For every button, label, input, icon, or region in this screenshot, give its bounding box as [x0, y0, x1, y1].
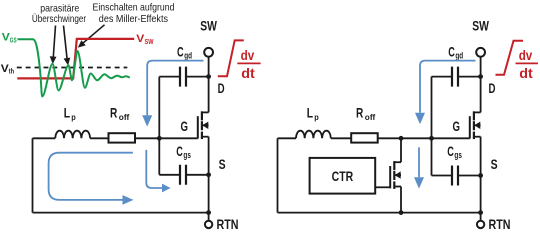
label C_gs	[176, 143, 191, 160]
wire: drain vertical from SW	[208, 57, 210, 113]
V_GS green gate voltage trace with ringing	[18, 39, 130, 96]
SW terminal circle	[204, 48, 213, 57]
CTR controller box	[310, 158, 376, 194]
svg-text:S: S	[219, 156, 226, 172]
label L_p	[64, 105, 76, 122]
wire: R_off to gate (right)	[378, 137, 470, 139]
svg-text:SW: SW	[200, 18, 217, 33]
blue current loop arrow (L_p/R_off loop)	[49, 153, 134, 205]
wire: left loop vertical	[32, 138, 34, 212]
svg-text:Einschalten aufgrund: Einschalten aufgrund	[93, 3, 175, 14]
svg-text:D: D	[218, 80, 225, 96]
wire: bottom return	[33, 212, 209, 214]
svg-text:p: p	[71, 113, 76, 122]
RTN terminal circle (right)	[477, 221, 484, 228]
resistor R_off	[109, 133, 136, 142]
label V_GS (green)	[2, 32, 17, 45]
inductor L_p	[55, 131, 90, 139]
svg-text:off: off	[365, 113, 376, 122]
svg-text:G: G	[181, 118, 189, 134]
svg-text:R: R	[110, 105, 117, 121]
wire: CTR to clamp gate	[375, 186, 390, 188]
svg-text:parasitäre: parasitäre	[40, 3, 79, 14]
wire: drain vertical (right)	[480, 57, 482, 113]
capacitor C_gs (right)	[452, 166, 458, 186]
svg-text:dt: dt	[241, 65, 255, 81]
blue arrow: Miller current into gate node	[142, 61, 203, 127]
wire: left loop vertical (right)	[277, 138, 279, 212]
svg-text:dv: dv	[241, 47, 255, 63]
wire: source vertical	[208, 137, 210, 213]
annotation arrow 2 (parasitäre -> ringing)	[64, 26, 71, 66]
wire: C_gs branch	[159, 174, 208, 176]
capacitor C_gd (right)	[452, 67, 458, 87]
svg-text:CTR: CTR	[332, 168, 354, 184]
SW terminal circle (right)	[476, 48, 485, 57]
wire: RTN stub	[208, 213, 210, 221]
wire: gate branch vertical (right)	[431, 77, 433, 176]
wire: C_gd branch (right)	[432, 76, 481, 78]
wire: between L_p and R_off (right)	[331, 137, 351, 139]
node: C_gd to drain junction	[206, 74, 211, 79]
svg-text:GS: GS	[10, 36, 17, 45]
label dv/dt (fraction, red)	[241, 47, 255, 81]
svg-text:gs: gs	[183, 150, 191, 160]
node: clamp source to return	[399, 210, 404, 215]
svg-text:S: S	[491, 156, 498, 172]
blue arrow: current into C_gs	[146, 150, 170, 193]
node: clamp drain tap	[399, 136, 404, 141]
wire: R_off to gate	[135, 137, 198, 139]
node: C_gs to source junction	[206, 172, 211, 177]
MOSFET Q1	[198, 111, 209, 139]
RTN terminal circle	[205, 221, 212, 228]
svg-text:gs: gs	[454, 150, 462, 160]
label R_off (right)	[356, 105, 376, 122]
svg-text:C: C	[448, 43, 455, 59]
label C_gs (right)	[447, 143, 462, 160]
svg-text:off: off	[119, 113, 130, 122]
node: C_gd to drain junction (right)	[478, 74, 483, 79]
wire: main gate wire left segment (right)	[278, 137, 297, 139]
wire: clamp drain vertical	[400, 138, 402, 162]
wire: main gate wire left segment	[33, 137, 56, 139]
wire: RTN stub (right)	[480, 213, 482, 221]
wire: C_gd branch	[159, 76, 208, 78]
node: RTN junction	[206, 210, 211, 215]
blue arrow: Miller current (right)	[415, 61, 476, 125]
inductor L_p (right)	[296, 131, 331, 139]
svg-text:gd: gd	[455, 51, 463, 61]
label C_gd	[177, 43, 192, 60]
svg-text:p: p	[314, 113, 319, 122]
label V_th	[1, 63, 15, 76]
capacitor C_gd	[180, 67, 186, 87]
node: RTN junction (right)	[478, 210, 483, 215]
svg-text:C: C	[447, 143, 454, 159]
resistor R_off (right)	[351, 133, 378, 142]
svg-text:L: L	[64, 105, 71, 121]
wire: source vertical (right)	[480, 137, 482, 213]
svg-text:G: G	[453, 118, 461, 134]
svg-text:C: C	[177, 43, 184, 59]
svg-text:L: L	[307, 105, 314, 121]
svg-text:Überschwinger: Überschwinger	[32, 13, 87, 25]
capacitor C_gs	[180, 165, 186, 185]
node: C_gs to source junction (right)	[478, 173, 483, 178]
label L_p (right)	[307, 105, 319, 122]
MOSFET Q3 (clamp)	[390, 161, 401, 189]
svg-text:dt: dt	[519, 65, 533, 81]
wire: clamp source vertical	[400, 187, 402, 213]
red dv/dt slope symbol	[218, 40, 244, 76]
red dv/dt slope symbol (right)	[496, 41, 524, 75]
blue arrow: current into C_gs (right)	[414, 147, 424, 188]
wire: gate branch vertical (C_gd to gate node)	[158, 77, 160, 175]
V_SW red switch-node trace	[17, 39, 134, 79]
annotation text "Einschalten aufgrund des Miller-Effekts"	[93, 3, 175, 25]
wire: bottom return (right)	[278, 212, 481, 214]
node: gate junction (right)	[429, 136, 434, 141]
MOSFET Q2 (right main)	[470, 111, 481, 139]
label V_SW (red)	[136, 33, 154, 46]
svg-text:th: th	[9, 67, 15, 76]
annotation arrow 3 (Miller-Effekt -> green peak)	[78, 25, 105, 48]
svg-text:C: C	[176, 143, 183, 159]
label R_off	[110, 105, 130, 122]
svg-text:des Miller-Effekts: des Miller-Effekts	[99, 14, 168, 25]
label C_gd (right)	[448, 43, 463, 60]
node: gate junction	[157, 136, 162, 141]
label dv/dt (right)	[519, 47, 533, 81]
wire: between L_p and R_off	[90, 137, 108, 139]
svg-text:D: D	[489, 80, 496, 96]
annotation arrow 1 (parasitäre -> ringing)	[50, 26, 57, 65]
annotation text "parasitäre Überschwinger"	[32, 3, 87, 24]
svg-text:RTN: RTN	[489, 216, 511, 231]
V_th dashed threshold line	[17, 67, 128, 69]
svg-text:gd: gd	[184, 51, 192, 61]
svg-text:SW: SW	[472, 18, 489, 33]
svg-text:SW: SW	[145, 37, 155, 46]
svg-text:dv: dv	[519, 47, 533, 63]
svg-text:R: R	[356, 105, 363, 121]
wire: C_gs branch (right)	[432, 175, 481, 177]
svg-text:RTN: RTN	[217, 216, 239, 231]
